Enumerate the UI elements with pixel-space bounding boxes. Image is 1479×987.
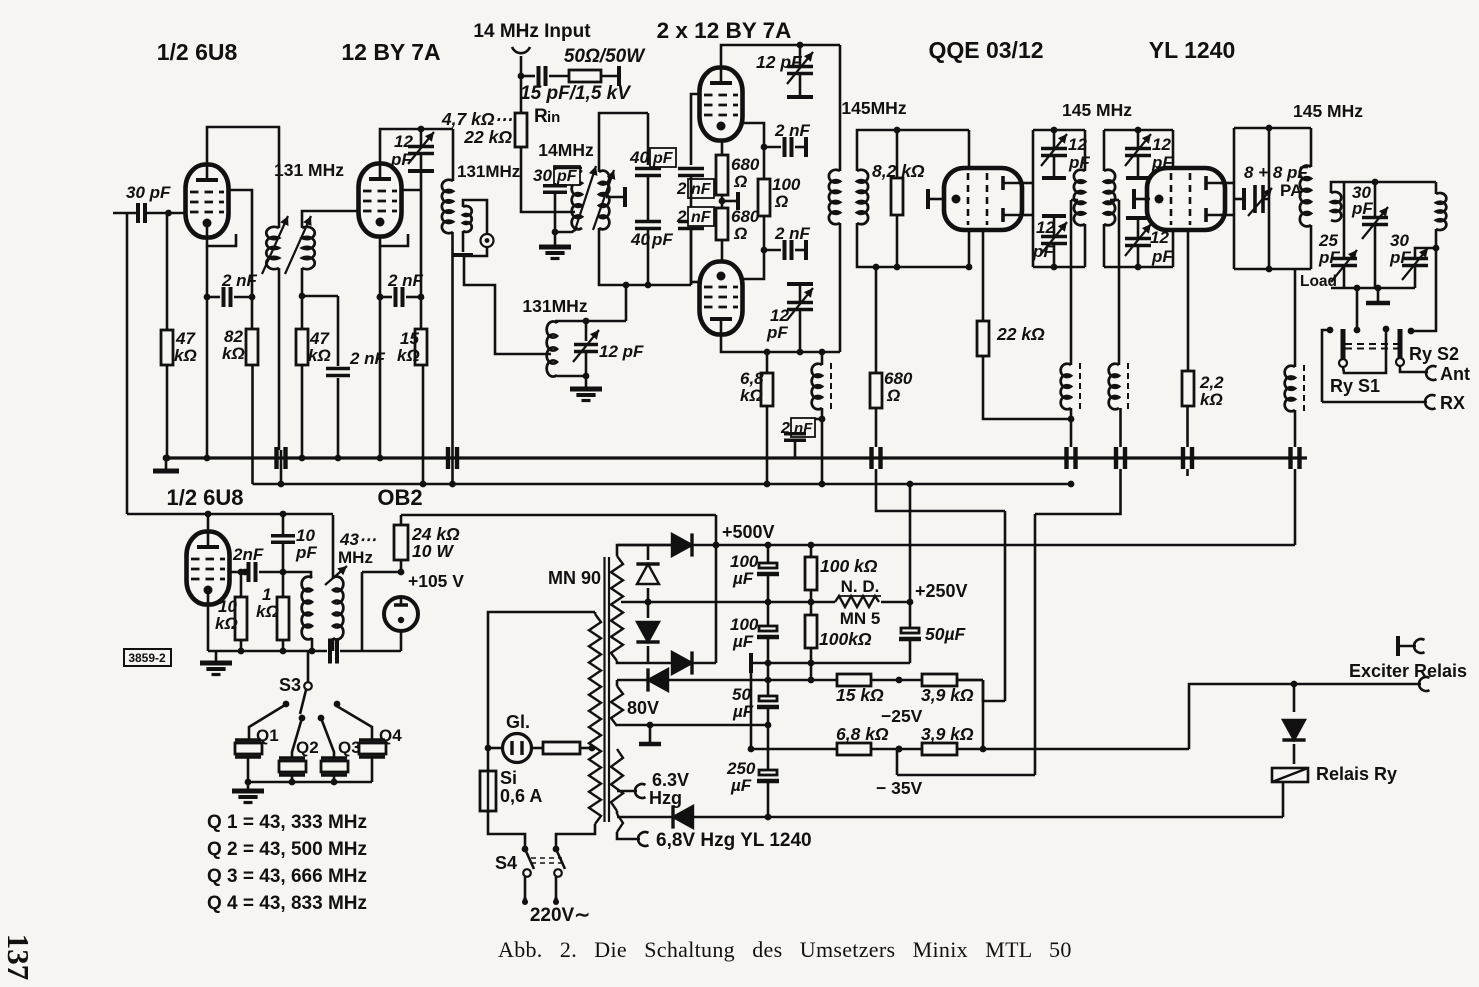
chassis bar heater: [649, 725, 652, 742]
wire -35V rail: [896, 749, 899, 775]
resistor 100 ohm: [742, 123, 764, 147]
wire cathode V2: [380, 234, 408, 246]
resistor 22k QQE screen: [982, 231, 985, 321]
crystal selector contacts: [283, 701, 290, 708]
wire anodes to top rail: [721, 45, 840, 68]
wire QQE grid rail top: [897, 129, 969, 132]
capacitor 30pF input: [113, 212, 136, 215]
capacitor 25pF Load: [1343, 182, 1346, 258]
capacitor 2nF screen bypass lower: [764, 249, 781, 252]
grid lead QQE: [928, 198, 944, 201]
wire bus cap1121 to -35V link: [1035, 469, 1121, 514]
output network bottom rail: [1331, 287, 1415, 290]
diode relay: [1293, 684, 1296, 712]
resistor 82k screen V1: [251, 297, 254, 329]
capacitor 40pF lower: [647, 176, 650, 221]
transformer 80V winding: [611, 686, 623, 726]
svg-text:R: R: [534, 106, 548, 127]
svg-text:22 kΩ: 22 kΩ: [463, 127, 512, 147]
svg-text:10 W: 10 W: [412, 541, 454, 561]
svg-text:pF: pF: [1032, 242, 1054, 261]
resistor 680 ohm cathode upper: [721, 140, 724, 155]
svg-text:30: 30: [533, 166, 552, 185]
capacitor 12pF variable YL tank upper: [1137, 130, 1140, 148]
svg-text:pF: pF: [295, 543, 317, 562]
wire 100k leg down to -25V row: [810, 663, 813, 680]
svg-text:Ω: Ω: [733, 224, 747, 243]
svg-text:Ant: Ant: [1440, 364, 1470, 384]
svg-text:131MHz: 131MHz: [457, 162, 520, 181]
crystal common rail: [248, 781, 372, 784]
oscillator anode supply wire: [127, 513, 333, 516]
wire secondary to QQE grid circuit: [857, 130, 897, 171]
primary centre tap to choke: [1071, 199, 1078, 202]
ground bar under link coil: [462, 231, 465, 252]
+250V distribution wire below bus: [253, 483, 1072, 486]
wire -25V riser: [1004, 511, 1007, 701]
svg-text:Si: Si: [500, 768, 517, 788]
wire winding2 to grid V2: [302, 211, 357, 228]
wire QQE cathode rail bottom: [897, 266, 969, 269]
resistor 680 ohm cathode lower: [721, 195, 724, 208]
svg-text:Ω: Ω: [733, 172, 747, 191]
capacitor 2nF bottom bypass: [819, 416, 826, 423]
svg-text:pF: pF: [651, 230, 673, 249]
chassis tap between 680 resistors: [722, 200, 738, 203]
svg-text:12: 12: [394, 132, 413, 151]
svg-text:30 pF: 30 pF: [126, 183, 171, 202]
triode V1 1/2 6U8: [186, 165, 229, 238]
resistor 6.8k bias: [751, 748, 837, 751]
wire negative rail to relay: [617, 816, 1283, 819]
svg-text:Q 3 = 43, 666 MHz: Q 3 = 43, 666 MHz: [207, 866, 367, 887]
resistor 8.2k QQE grid: [896, 130, 899, 178]
grid lead YL: [1134, 198, 1150, 201]
tube V3b 12BY7A lower (inverted): [700, 262, 743, 335]
wire +105 to osc tank: [362, 571, 401, 574]
svg-text:Ry S1: Ry S1: [1330, 376, 1380, 396]
capacitor 12pF variable YL tank lower: [1126, 216, 1150, 220]
svg-text:6.3V: 6.3V: [652, 770, 689, 790]
svg-text:MHz: MHz: [338, 548, 373, 567]
wire lower anode rail: [721, 334, 840, 352]
coil antenna side: [1435, 182, 1438, 194]
coil 131MHz trap: [555, 320, 626, 323]
svg-text:MN 5: MN 5: [840, 609, 881, 628]
capacitor 100uF lower: [767, 602, 770, 626]
bridge rectifier verticals: [617, 545, 648, 556]
wire fuse to S4: [488, 811, 525, 849]
wire x125 vertical (osc injection to mixer): [126, 213, 129, 514]
svg-text:137: 137: [1, 934, 36, 981]
wire secondary to grid network: [599, 113, 648, 172]
svg-text:12 pF: 12 pF: [599, 342, 644, 361]
tube V3a 12BY7A upper: [700, 68, 743, 141]
svg-text:pF: pF: [390, 150, 412, 169]
svg-text:MN 90: MN 90: [548, 568, 601, 588]
svg-text:kΩ: kΩ: [215, 614, 238, 633]
svg-text:131MHz: 131MHz: [522, 296, 587, 316]
wire -25V link: [983, 680, 1005, 701]
capacitor 12pF variable upper doubler: [799, 45, 802, 66]
resistor 100k upper: [810, 545, 813, 557]
secondary centre tap to choke: [1110, 199, 1119, 202]
OB2 supply wire from +500: [401, 514, 716, 517]
capacitor 2nF cathode filter V2: [302, 295, 338, 298]
PA tank box: [1233, 128, 1236, 269]
svg-text:pF: pF: [766, 323, 788, 342]
svg-text:100kΩ: 100kΩ: [819, 629, 872, 649]
svg-text:Relais Ry: Relais Ry: [1316, 764, 1397, 784]
svg-text:N. D.: N. D.: [841, 577, 880, 596]
svg-text:OB2: OB2: [377, 485, 422, 510]
wire +250 mid rail: [621, 601, 811, 604]
svg-text:µF: µF: [732, 632, 754, 651]
capacitor 2nF grid upper: [690, 140, 693, 165]
tank box YL grid: [1104, 129, 1173, 132]
capacitor 2nF cathode bypass V1: [207, 296, 220, 299]
capacitor 2nF screen bypass upper: [764, 146, 781, 149]
svg-text:− 35V: − 35V: [876, 778, 923, 798]
wire +500 to PA via bus cap: [1294, 469, 1297, 545]
svg-text:Ω: Ω: [774, 192, 788, 211]
svg-text:0,6 A: 0,6 A: [500, 786, 542, 806]
transformer 6.3V winding: [611, 749, 623, 811]
wire link output to 131MHz trap: [464, 247, 551, 354]
bus feedthrough capacitor at x283: [277, 447, 286, 469]
svg-text:Abb. 2. Die Schaltung des: Abb. 2. Die Schaltung des Umsetzers Mini…: [498, 937, 1072, 962]
svg-text:nF: nF: [691, 181, 712, 198]
crystal Q2: [292, 718, 302, 758]
wire Rin to 14MHz transformer tap: [521, 147, 575, 212]
exciter keying contact symbol: [1396, 636, 1400, 656]
wire heater-ground riser to bias row: [750, 663, 753, 749]
wire S1 moving contact loop: [1343, 329, 1386, 373]
transformer primary winding: [594, 612, 597, 614]
resistor 15k screen V2: [420, 297, 423, 329]
svg-text:kΩ: kΩ: [1200, 390, 1223, 409]
svg-text:2nF: 2nF: [232, 545, 264, 564]
svg-text:kΩ: kΩ: [256, 602, 279, 621]
choke with core doubler cathode: [821, 352, 824, 365]
svg-text:14MHz: 14MHz: [538, 140, 594, 160]
wire -35V riser: [1034, 514, 1037, 775]
svg-text:3,9 kΩ: 3,9 kΩ: [921, 724, 974, 744]
svg-text:Hzg: Hzg: [649, 788, 682, 808]
svg-text:220V∼: 220V∼: [530, 905, 590, 926]
svg-text:6,8V Hzg YL 1240: 6,8V Hzg YL 1240: [656, 830, 812, 851]
svg-text:22 kΩ: 22 kΩ: [996, 324, 1045, 344]
svg-text:3,9 kΩ: 3,9 kΩ: [921, 685, 974, 705]
relay dashed link S1-S2: [1345, 344, 1398, 349]
coil output link: [1331, 192, 1341, 221]
svg-text:4,7 kΩ⋯: 4,7 kΩ⋯: [441, 109, 513, 129]
svg-text:Q 2 = 43, 500 MHz: Q 2 = 43, 500 MHz: [207, 839, 367, 860]
svg-text:kΩ: kΩ: [174, 346, 197, 365]
capacitor 12pF variable anode V2: [420, 129, 423, 146]
svg-text:1/2 6U8: 1/2 6U8: [166, 485, 243, 510]
choke with core QQE tank feed: [1070, 200, 1073, 365]
crystal Q3: [321, 718, 334, 758]
bus feedthrough capacitor at x452: [448, 447, 457, 469]
svg-text:12 pF: 12 pF: [756, 52, 803, 72]
svg-text:pF: pF: [1318, 248, 1340, 267]
transformer 6.8V winding: [617, 814, 623, 832]
svg-text:Ry S2: Ry S2: [1409, 344, 1459, 364]
capacitor 12pF variable lower doubler: [799, 310, 802, 352]
tube QQE03/12: [944, 168, 1022, 230]
resistor 3.9k bias upper: [896, 677, 903, 684]
svg-text:43⋯: 43⋯: [339, 530, 377, 549]
wire 82k to +250 feed: [251, 365, 254, 484]
svg-text:100 kΩ: 100 kΩ: [820, 556, 878, 576]
connector RX: [1322, 330, 1330, 402]
ground 131MHz trap: [585, 376, 588, 388]
capacitor 40pF upper: [647, 113, 650, 165]
wire anode V1 to top rail: [207, 127, 279, 228]
svg-text:Gl.: Gl.: [506, 712, 530, 732]
capacitor 250uF: [767, 725, 770, 770]
ground symbol oscillator: [215, 651, 218, 662]
svg-text:Q2: Q2: [296, 738, 319, 757]
relay coil Relais Ry: [1272, 768, 1308, 782]
capacitor 10pF: [282, 514, 285, 534]
svg-text:Q 4 = 43, 833 MHz: Q 4 = 43, 833 MHz: [207, 893, 367, 914]
bus feedthrough capacitor at x1121: [1116, 447, 1125, 469]
crystal Q1: [249, 705, 285, 740]
fuse Si 0.6A: [480, 771, 496, 811]
svg-text:1/2 6U8: 1/2 6U8: [157, 39, 238, 65]
capacitor 12pF variable QQE tank upper: [1053, 130, 1056, 148]
resistor 47k grid leak V1: [166, 213, 169, 330]
svg-text:2 x 12 BY 7A: 2 x 12 BY 7A: [657, 18, 792, 43]
svg-text:40: 40: [630, 230, 650, 249]
coil PA plate winding: [1300, 166, 1311, 227]
svg-text:RX: RX: [1440, 393, 1465, 413]
svg-text:µF: µF: [732, 569, 754, 588]
capacitor 12pF variable trap: [585, 321, 588, 341]
bus feedthrough capacitor at x876: [872, 447, 881, 469]
osc cathode wire: [207, 590, 210, 651]
link coupling coil V2 output: [463, 206, 472, 232]
capacitor 2nF grid lower: [690, 176, 693, 221]
bus feedthrough capacitor at x1187: [1183, 447, 1192, 469]
svg-text:kΩ: kΩ: [222, 344, 245, 363]
wire anode V2 to rail and 12pF: [380, 129, 453, 164]
wire screen line V2 up to 12pF: [420, 171, 423, 297]
tube YL1240: [1147, 168, 1225, 230]
capacitor 50uF bias: [767, 663, 770, 696]
relay switch bar Ry S1: [1341, 329, 1346, 359]
tube V2 12BY7A: [359, 164, 402, 237]
svg-text:8,2 kΩ: 8,2 kΩ: [872, 161, 925, 181]
svg-text:nF: nF: [691, 209, 712, 226]
resistor 24k 10W OB2 dropper: [400, 515, 403, 525]
svg-text:S4: S4: [495, 853, 517, 873]
resistor 1k osc: [282, 572, 285, 597]
screen tap V2: [402, 189, 421, 192]
svg-text:2: 2: [676, 207, 687, 226]
wire mains left branch: [488, 612, 595, 748]
wire winding1 return through bus cap: [278, 268, 281, 450]
ground rail oscillator: [208, 650, 327, 653]
svg-text:pF: pF: [556, 168, 578, 185]
svg-text:Ω: Ω: [886, 386, 900, 405]
resistor 2.2k YL cathode: [1187, 230, 1190, 371]
crystal Q4: [335, 705, 372, 740]
capacitor 30pF variable #1: [1374, 182, 1377, 217]
coax jack stage2 output: [481, 234, 494, 247]
rectifier diode top MN90: [672, 533, 692, 556]
svg-text:−25V: −25V: [881, 706, 923, 726]
capacitor 100uF upper: [767, 545, 770, 563]
svg-text:kΩ: kΩ: [308, 346, 331, 365]
svg-text:µF: µF: [730, 776, 752, 795]
relay contact posts: [1356, 288, 1359, 330]
svg-text:12: 12: [1036, 218, 1055, 237]
svg-text:S3: S3: [279, 675, 301, 695]
svg-text:in: in: [547, 109, 560, 126]
ground symbol on bus: [163, 455, 170, 462]
wire +250 riser to distribution: [909, 484, 912, 602]
tube V4 oscillator 1/2 6U8: [187, 532, 230, 605]
capacitor 2nF osc grid: [231, 571, 244, 574]
chassis bar tap on 14MHz secondary: [606, 196, 625, 199]
resistor 50 ohm dummy load: [569, 70, 601, 82]
svg-text:40: 40: [629, 148, 649, 167]
capacitor 15pF/1.5kV: [521, 75, 535, 78]
output network top rail: [1337, 181, 1436, 184]
wire 15k to +250 feed: [422, 365, 425, 484]
wire screen V1 down: [227, 190, 252, 297]
svg-text:6,8 kΩ: 6,8 kΩ: [836, 724, 889, 744]
ground under 30pF: [554, 232, 557, 246]
svg-text:pF: pF: [1351, 199, 1373, 218]
svg-text:15 kΩ: 15 kΩ: [836, 685, 884, 705]
svg-text:145 MHz: 145 MHz: [1293, 101, 1363, 121]
svg-text:12 BY 7A: 12 BY 7A: [341, 39, 440, 65]
transformer 145MHz QQE to YL: [1074, 170, 1085, 226]
resistor 3.9k bias lower: [922, 743, 957, 755]
wire exciter relais line: [1189, 684, 1421, 749]
wire common grid line: [691, 94, 699, 140]
svg-text:2 nF: 2 nF: [387, 271, 424, 290]
ground bar output network: [1377, 288, 1380, 302]
wire YL anodes to PA tank: [1220, 182, 1234, 185]
bus feedthrough capacitor at x1071: [1067, 447, 1076, 469]
connector Ant: [1400, 366, 1428, 372]
svg-text:145MHz: 145MHz: [841, 98, 906, 118]
resistor 10k osc: [240, 572, 243, 597]
tube OB2 regulator: [384, 597, 418, 631]
svg-text:pF: pF: [652, 150, 674, 167]
wire QQE anodes to tank: [1022, 182, 1033, 185]
resistor 15k bias: [837, 674, 871, 686]
svg-text:+500V: +500V: [722, 522, 775, 542]
svg-text:14 MHz Input: 14 MHz Input: [473, 21, 591, 42]
heater tap 6.8V YL1240: [617, 832, 640, 839]
wire grid node to tube V1: [167, 212, 187, 215]
svg-text:80V: 80V: [627, 698, 659, 718]
choke PA cathode: [1294, 269, 1297, 367]
wire grid line to coil: [283, 572, 311, 578]
wire 80V rectifier rail: [617, 679, 983, 682]
wire bus cap876 to -25V link: [876, 469, 1005, 511]
svg-text:Exciter Relais: Exciter Relais: [1349, 661, 1467, 681]
svg-text:2 nF: 2 nF: [774, 121, 811, 140]
svg-text:Q 1 = 43, 333 MHz: Q 1 = 43, 333 MHz: [207, 812, 367, 833]
wire cathode V1: [207, 223, 236, 246]
svg-text:145 MHz: 145 MHz: [1062, 100, 1132, 120]
svg-text:kΩ: kΩ: [397, 346, 420, 365]
svg-text:50µF: 50µF: [925, 624, 967, 644]
svg-text:Q3: Q3: [338, 738, 361, 757]
svg-text:QQE 03/12: QQE 03/12: [928, 37, 1043, 63]
resistor 100k lower: [810, 602, 813, 615]
svg-text:131 MHz: 131 MHz: [274, 160, 344, 180]
ground rail of +500 section: [749, 653, 753, 673]
tank box QQE anode: [1032, 130, 1035, 267]
resistor lamp series: [531, 747, 543, 750]
transformer core: [605, 557, 610, 822]
capacitor 2nF cathode bypass V2: [380, 296, 392, 299]
wire primary bottom to S4: [556, 824, 595, 849]
svg-text:YL 1240: YL 1240: [1149, 37, 1236, 63]
capacitor 12pF variable QQE tank lower: [1042, 214, 1066, 218]
svg-text:2 nF: 2 nF: [774, 224, 811, 243]
svg-text:15 pF/1,5 kV: 15 pF/1,5 kV: [520, 83, 631, 104]
resistor 680 ohm QQE cathode return: [873, 264, 880, 271]
choke with core YL grid return: [1118, 200, 1121, 365]
bus feedthrough capacitor at x1295: [1291, 447, 1300, 469]
svg-text:+105 V: +105 V: [408, 571, 464, 591]
coil 131MHz anode tank V2: [452, 129, 455, 181]
heater tap 6.3V Hzg: [617, 790, 637, 793]
resistor 47k grid leak V2: [301, 268, 304, 329]
relay switch bar Ry S2: [1398, 329, 1403, 358]
resistor 6.8k bias doubler: [766, 352, 769, 373]
svg-text:2: 2: [676, 179, 687, 198]
ground crystals: [247, 782, 250, 790]
svg-text:pF: pF: [1151, 247, 1173, 266]
wire heater rail: [617, 724, 768, 727]
bridge output wires: [648, 544, 672, 547]
label 3S59-2 box: [124, 649, 171, 666]
svg-text:50Ω/50W: 50Ω/50W: [564, 46, 646, 67]
wire +500 rail: [617, 544, 1295, 547]
mains terminals 220V: [524, 877, 527, 900]
svg-text:3859-2: 3859-2: [128, 651, 166, 665]
wire tank cold end through bus cap: [451, 232, 454, 484]
svg-text:2 nF: 2 nF: [349, 349, 386, 368]
capacitor 50uF: [909, 602, 912, 628]
svg-text:12: 12: [1152, 135, 1171, 154]
svg-text:+250V: +250V: [915, 581, 968, 601]
transformer HV secondary: [611, 556, 623, 661]
ground bus wire: [164, 456, 1307, 459]
wire trap riser to grid network: [625, 285, 628, 321]
capacitor coupling osc output: [330, 639, 337, 664]
svg-text:kΩ: kΩ: [740, 386, 763, 405]
